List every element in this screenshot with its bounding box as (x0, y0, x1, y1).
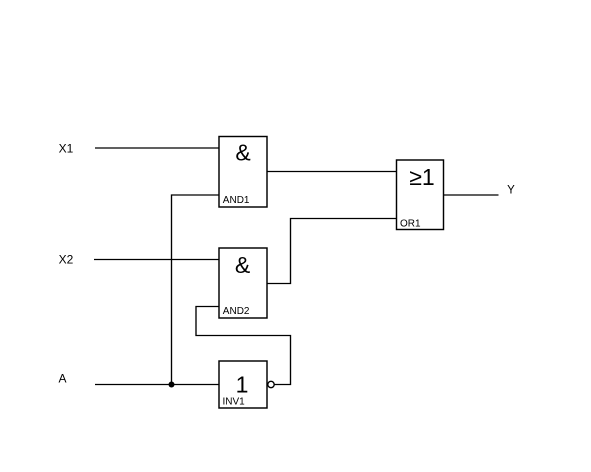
wire INV1 output to AND2 input 2 (196, 307, 291, 385)
svg-text:&: & (235, 140, 250, 166)
svg-text:Y: Y (507, 185, 515, 197)
inversion bubble on INV1 output (268, 381, 274, 387)
svg-text:X2: X2 (59, 253, 74, 267)
wire OR1 output to Y (444, 194, 499, 196)
svg-text:AND2: AND2 (223, 306, 250, 317)
or-gate OR1 (397, 160, 444, 230)
wire X2 to AND2 input 1 (94, 259, 219, 261)
wire A to INV1 input (95, 384, 219, 386)
svg-text:AND1: AND1 (223, 195, 250, 206)
svg-text:A: A (58, 372, 66, 386)
wire X1 to AND1 input 1 (95, 147, 219, 149)
svg-text:≥1: ≥1 (409, 164, 434, 190)
svg-text:&: & (235, 252, 250, 278)
wire AND1 output to OR1 input 1 (267, 171, 397, 173)
svg-text:1: 1 (236, 372, 249, 398)
and-gate AND2 (219, 248, 267, 318)
inverter INV1 (219, 361, 267, 408)
wire branch of A up to AND1 input 2 (172, 195, 220, 385)
and-gate AND1 (219, 137, 267, 208)
svg-text:OR1: OR1 (400, 219, 421, 230)
junction on net A (169, 382, 175, 388)
svg-text:X1: X1 (59, 142, 74, 156)
wire AND2 output to OR1 input 2 (267, 219, 397, 284)
svg-text:INV1: INV1 (223, 397, 246, 408)
